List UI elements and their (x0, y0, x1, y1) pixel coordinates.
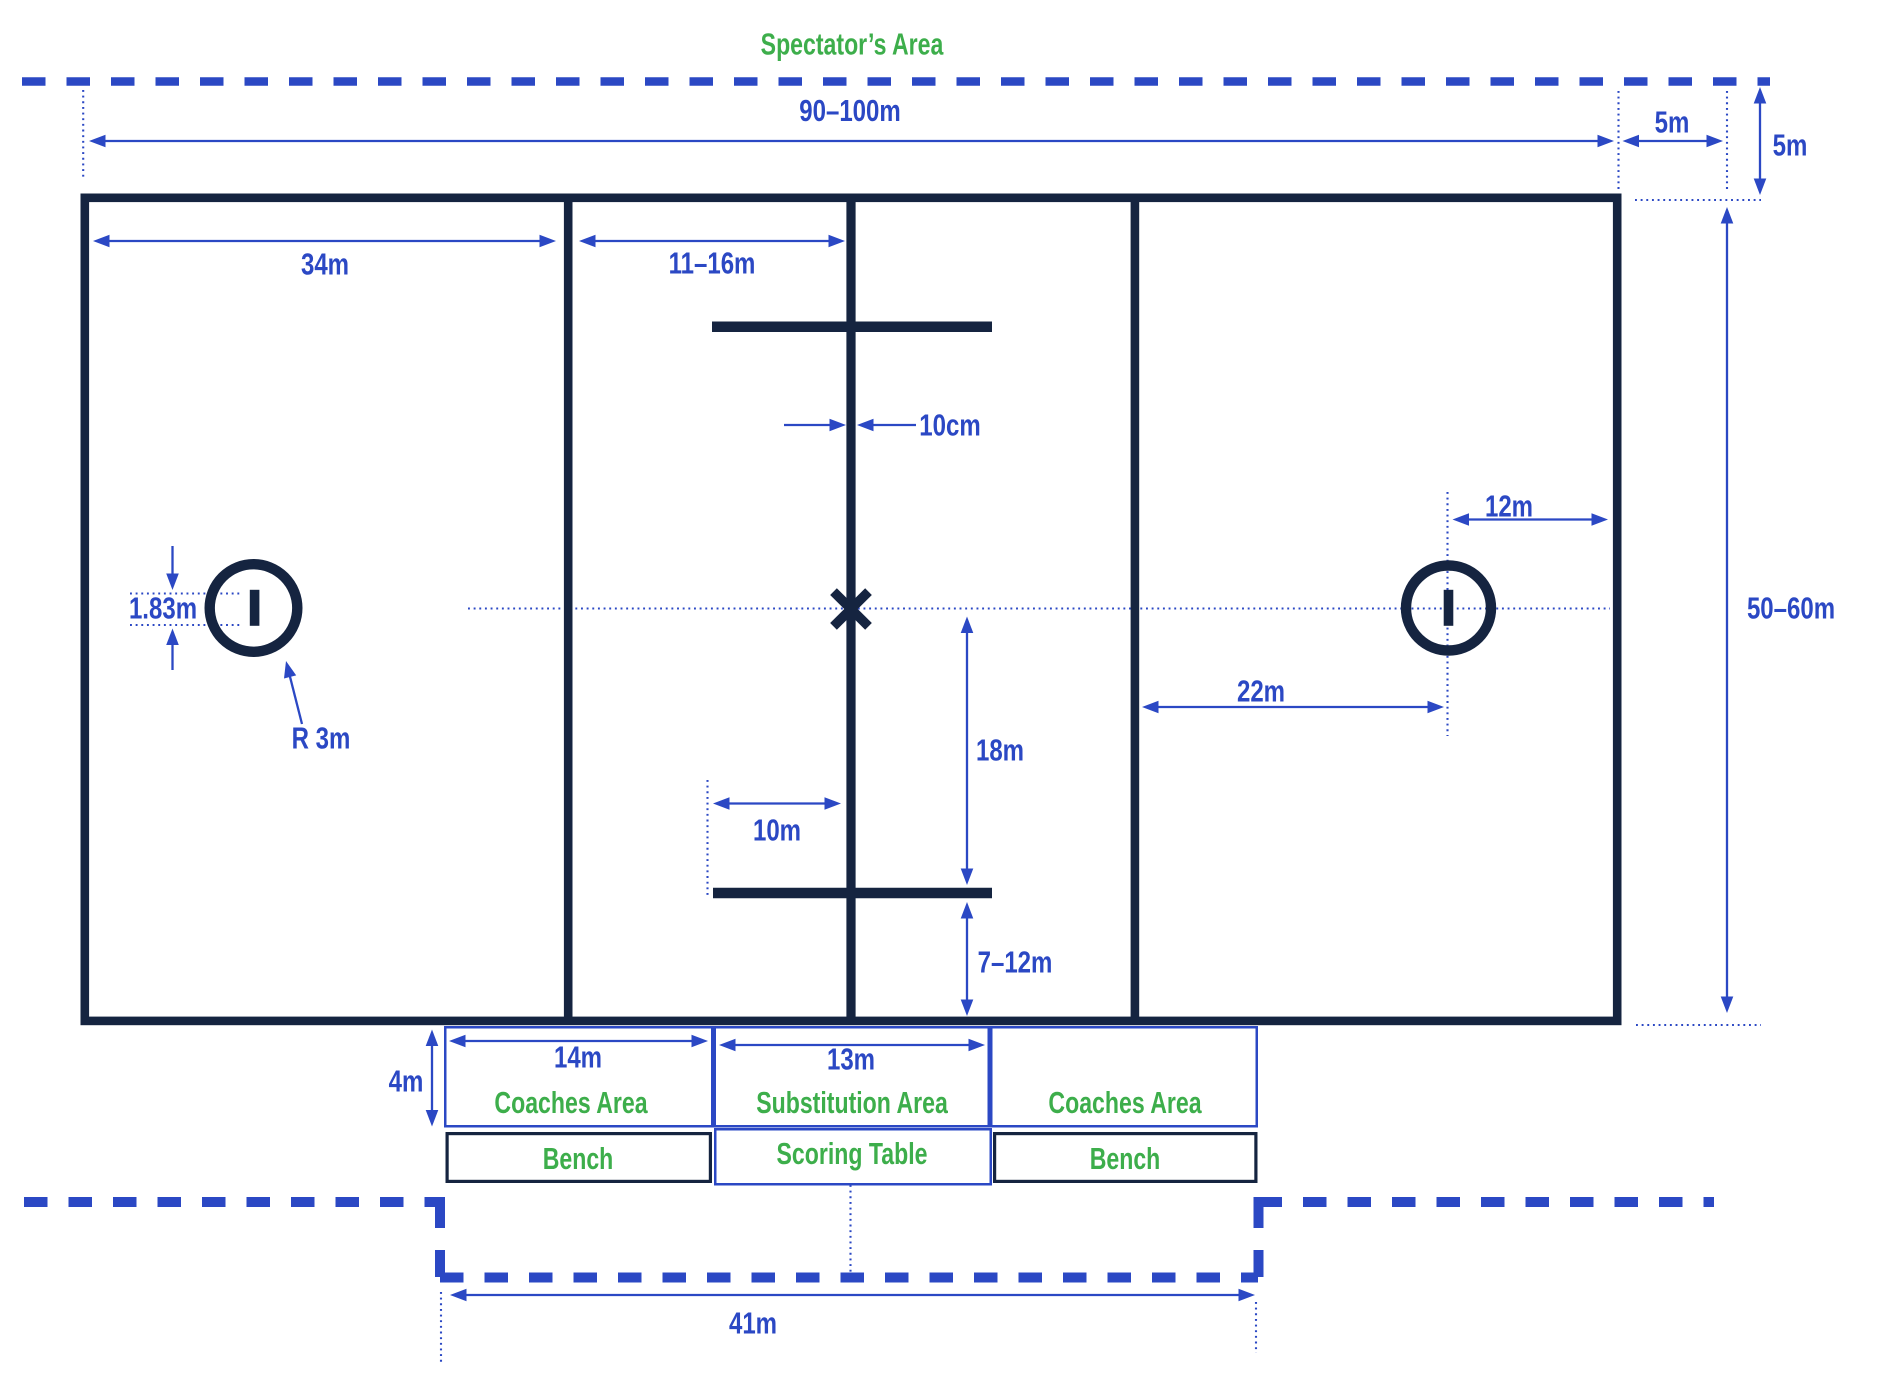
svg-text:10m: 10m (753, 813, 801, 848)
svg-text:7–12m: 7–12m (978, 945, 1053, 980)
svg-text:22m: 22m (1237, 674, 1285, 709)
svg-text:Scoring Table: Scoring Table (777, 1135, 928, 1170)
svg-text:Substitution Area: Substitution Area (756, 1084, 948, 1119)
svg-text:5m: 5m (1655, 105, 1690, 140)
svg-text:Coaches Area: Coaches Area (1048, 1084, 1202, 1119)
svg-text:11–16m: 11–16m (669, 246, 756, 281)
svg-text:10cm: 10cm (919, 408, 980, 443)
svg-text:41m: 41m (729, 1306, 777, 1341)
svg-text:5m: 5m (1773, 128, 1808, 163)
svg-text:13m: 13m (827, 1042, 875, 1077)
svg-text:1.83m: 1.83m (129, 591, 197, 626)
svg-text:Bench: Bench (1090, 1140, 1161, 1175)
svg-text:50–60m: 50–60m (1747, 591, 1835, 626)
svg-text:12m: 12m (1485, 489, 1533, 524)
svg-text:R 3m: R 3m (292, 721, 351, 756)
svg-text:18m: 18m (976, 733, 1024, 768)
svg-text:34m: 34m (301, 247, 349, 282)
svg-text:Spectator’s Area: Spectator’s Area (761, 26, 944, 61)
svg-text:90–100m: 90–100m (799, 93, 900, 128)
svg-text:Coaches Area: Coaches Area (494, 1084, 648, 1119)
svg-text:14m: 14m (554, 1040, 602, 1075)
svg-text:Bench: Bench (543, 1140, 614, 1175)
svg-text:4m: 4m (389, 1064, 424, 1099)
